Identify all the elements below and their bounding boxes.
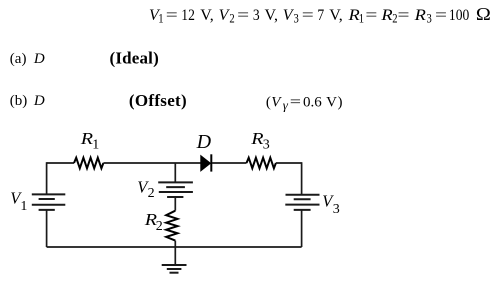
svg-text:1: 1 xyxy=(158,12,163,26)
svg-text:=: = xyxy=(302,6,314,24)
svg-text:V: V xyxy=(271,94,282,110)
resistor R2 xyxy=(166,211,177,241)
label R3 xyxy=(250,130,270,153)
svg-text:γ: γ xyxy=(283,97,289,112)
svg-text:1: 1 xyxy=(92,137,99,152)
svg-text:3: 3 xyxy=(263,138,270,153)
svg-text:(a): (a) xyxy=(10,51,27,67)
label R1 xyxy=(80,130,99,152)
svg-text:1: 1 xyxy=(359,12,364,26)
svg-text:=: = xyxy=(365,6,377,24)
label (b) xyxy=(10,93,28,109)
ground xyxy=(162,265,187,273)
wire right vertical lower xyxy=(301,210,303,247)
svg-text:0.6: 0.6 xyxy=(303,94,322,110)
svg-text:=: = xyxy=(237,6,249,24)
label V1 xyxy=(10,189,27,214)
svg-text:(Ideal): (Ideal) xyxy=(110,49,159,68)
svg-text:V,: V, xyxy=(265,7,279,24)
value line text xyxy=(149,5,491,26)
svg-text:1: 1 xyxy=(20,199,27,214)
svg-text:(b): (b) xyxy=(10,93,28,109)
wire R1 to diode xyxy=(103,162,200,164)
svg-text:Ω: Ω xyxy=(476,5,491,24)
svg-text:R: R xyxy=(380,6,393,24)
svg-text:3: 3 xyxy=(333,202,340,217)
label V3 xyxy=(322,191,339,217)
wire left vertical upper xyxy=(46,162,48,194)
svg-text:3: 3 xyxy=(253,7,260,24)
diode D xyxy=(201,154,212,171)
svg-text:(Offset): (Offset) xyxy=(129,91,187,110)
wire left vertical lower xyxy=(46,210,48,247)
svg-text:12: 12 xyxy=(181,7,195,24)
label D xyxy=(196,131,212,153)
svg-text:R: R xyxy=(414,6,427,24)
svg-text:2: 2 xyxy=(229,12,234,26)
svg-text:7: 7 xyxy=(317,7,324,24)
label (Offset) xyxy=(129,91,187,110)
svg-text:D: D xyxy=(196,131,212,153)
svg-text:D: D xyxy=(33,93,45,109)
wire V2 to R2 xyxy=(174,197,176,211)
label (Ideal) xyxy=(110,49,159,68)
label D of (b) xyxy=(33,93,45,109)
wire diode to R3 xyxy=(212,162,247,164)
svg-text:=: = xyxy=(435,6,447,24)
battery V3 xyxy=(285,195,319,210)
label (Vgamma = 0.6 V) xyxy=(266,93,343,113)
battery V1 xyxy=(32,194,66,210)
svg-text:2: 2 xyxy=(148,186,155,201)
wire bottom horizontal xyxy=(47,246,302,248)
svg-text:): ) xyxy=(338,94,343,110)
svg-text:D: D xyxy=(33,51,45,67)
label R2 xyxy=(144,211,163,234)
svg-text:2: 2 xyxy=(156,219,163,234)
svg-text:3: 3 xyxy=(427,12,432,26)
wire middle vertical upper xyxy=(174,163,176,182)
wire R2 to bottom xyxy=(174,241,176,247)
battery V2 xyxy=(158,182,193,197)
svg-text:V,: V, xyxy=(329,7,343,24)
svg-text:V,: V, xyxy=(200,7,214,24)
resistor R3 xyxy=(247,158,276,169)
svg-text:R: R xyxy=(250,130,263,148)
svg-text:V: V xyxy=(326,94,337,110)
label D of (a) xyxy=(33,51,45,67)
svg-text:=: = xyxy=(398,6,410,24)
svg-text:(: ( xyxy=(266,94,271,110)
svg-text:3: 3 xyxy=(294,12,299,26)
wire top-left horizontal xyxy=(47,162,74,164)
svg-text:=: = xyxy=(166,6,178,24)
svg-text:=: = xyxy=(290,93,301,110)
wire ground stem xyxy=(174,246,176,265)
svg-text:R: R xyxy=(80,130,93,148)
label (a) xyxy=(10,51,27,67)
svg-text:100: 100 xyxy=(449,7,469,24)
wire R3 to top-right corner xyxy=(276,162,302,164)
wire right vertical upper xyxy=(301,162,303,194)
resistor R1 xyxy=(74,158,103,169)
label V2 xyxy=(137,177,154,200)
